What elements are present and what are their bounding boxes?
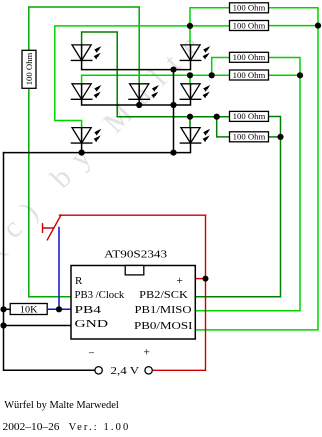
resistor R8 10K xyxy=(10,304,47,316)
resistor R5 100 Ohm xyxy=(230,111,269,121)
wire net PB1 left: pair-2 left line from LED D3 anode to resistor R4 left xyxy=(82,75,230,84)
node junction C2-feed xyxy=(187,72,193,78)
wire: LED D4 cathode drop xyxy=(138,84,140,105)
watermark xyxy=(0,20,215,263)
wire: switch to plus rail (red) xyxy=(60,214,206,216)
wire: riser to resistor R6 left xyxy=(217,117,230,137)
wire: row-3 cathode bus to left rail xyxy=(4,128,191,153)
node junction R3-riser xyxy=(209,72,215,78)
node junction riser-bus2 xyxy=(170,102,176,108)
node junction R2-right xyxy=(315,23,321,29)
resistor R4 100 Ohm xyxy=(230,70,269,80)
node junction rail-10K xyxy=(0,306,6,312)
svg-text:2002–10–26: 2002–10–26 xyxy=(3,422,60,433)
wire net PB0 left: branch from R1 left down to LED D2 anode xyxy=(190,8,230,45)
resistor R7 100 Ohm (vertical, left) xyxy=(22,50,36,88)
wire net PB2 left: LED D1 anode over to pair-3 left line into resistor R5 xyxy=(82,32,230,117)
LED D5 xyxy=(180,84,210,100)
wire: LED D6 cathode drop xyxy=(81,128,83,153)
svg-text:Würfel by Malte Marwedel: Würfel by Malte Marwedel xyxy=(4,399,119,411)
wire: riser to resistor R3 left xyxy=(212,58,230,76)
node junction D6-bus3 xyxy=(79,150,85,156)
LED D3 xyxy=(71,84,101,100)
resistor R6 100 Ohm xyxy=(230,132,269,142)
resistor R2 100 Ohm xyxy=(230,21,269,31)
node junction rail-GND xyxy=(0,322,6,328)
battery B1 plus terminal xyxy=(145,367,152,374)
svg-text:Ver.: 1.00: Ver.: 1.00 xyxy=(69,422,129,433)
wire net PB0 left: pair-1 left line to LED D7 anode and resistor R1/R2 left xyxy=(55,26,230,128)
op-amp U1 AT90S2343 body xyxy=(71,266,195,340)
wire net PB3: resistor R7 bottom lead down to PB3/Clock pin xyxy=(29,88,71,296)
wire: resistor R2 right xyxy=(269,25,319,27)
wire net PB1 right: resistor R3 right down to PB1/MISO pin xyxy=(195,58,300,311)
node junction C1-feed xyxy=(187,23,193,29)
node junction PB4 xyxy=(56,306,62,312)
wire: branch down to LED D6 anode xyxy=(189,117,191,128)
resistor R3 100 Ohm xyxy=(230,52,269,62)
wire: cathode riser bus1-bus2-bus3 xyxy=(173,70,175,153)
node junction riser-bus3 xyxy=(170,150,176,156)
wire net PB3: resistor R7 top lead up and across to LED D4 anode xyxy=(29,7,139,84)
wire: resistor R4 right xyxy=(269,74,301,76)
wire: 10K left lead to rail xyxy=(4,308,11,310)
wire: left minus rail down to battery minus xyxy=(4,153,95,371)
node junction C3-feed xyxy=(187,114,193,120)
LED D2 xyxy=(180,45,210,61)
node junction R6-right xyxy=(277,134,283,140)
LED D6 xyxy=(71,128,101,144)
switch S1 lever xyxy=(47,215,61,240)
wire: branch down to LED D5 anode xyxy=(189,75,191,84)
U1 notch xyxy=(125,266,144,275)
node junction R6-riser xyxy=(214,114,220,120)
node junction D4-bus2 xyxy=(136,102,142,108)
wire: GND pin to rail xyxy=(4,325,72,327)
wire: plus rail down to battery plus (red) xyxy=(153,215,206,370)
wire: row-1 cathode bus D1 to D2 xyxy=(82,45,191,70)
wire: switch to PB4 node (blue) xyxy=(58,228,60,310)
wire: resistor R6 right xyxy=(269,136,281,138)
battery B1 minus terminal xyxy=(95,367,102,374)
switch S1 fixed contact xyxy=(43,224,54,233)
wire: row-2 cathode bus D3 D4 D5 xyxy=(82,84,191,105)
LED D7 xyxy=(180,128,210,144)
node junction riser-bus1 xyxy=(170,67,176,73)
resistor R1 100 Ohm xyxy=(230,3,269,13)
wire: chip + pin to plus rail (red) xyxy=(195,278,205,280)
wire net PB2 right: resistor R5 right down to PB2/SCK pin xyxy=(195,117,280,297)
wire net PB0 right: resistor R1 right down to PB0/MOSI pin xyxy=(195,8,318,330)
node junction R4-right xyxy=(297,72,303,78)
LED D1 xyxy=(71,45,101,61)
node junction plus-pin xyxy=(203,276,209,282)
LED D4 xyxy=(129,84,159,100)
wire: 10K right lead / PB4 pin (blue) xyxy=(47,308,71,310)
